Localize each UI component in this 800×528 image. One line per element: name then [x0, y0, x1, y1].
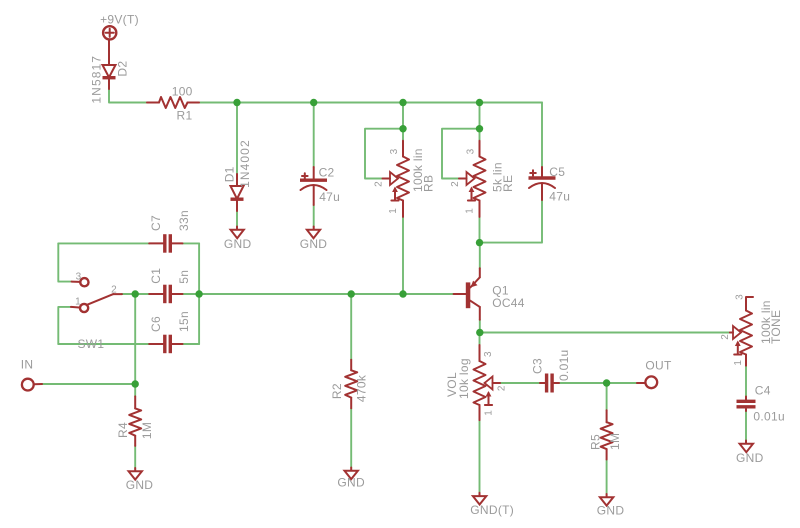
svg-text:1: 1 [75, 297, 81, 308]
svg-text:2: 2 [450, 181, 461, 187]
ground GND(T) (VOL) [470, 493, 514, 517]
svg-text:1: 1 [465, 208, 476, 214]
wire main V+ rail [199, 102, 542, 104]
svg-text:2: 2 [496, 385, 507, 391]
wire C3 to OUT [559, 382, 637, 384]
svg-text:SW1: SW1 [78, 337, 105, 351]
svg-text:D1: D1 [223, 166, 237, 182]
svg-text:1N5817: 1N5817 [90, 55, 104, 104]
svg-text:15n: 15n [177, 311, 191, 332]
transistor Q1 OC44 [454, 268, 525, 320]
resistor R2 470k [330, 360, 368, 409]
wire bracket top to throw 3 [58, 243, 71, 281]
svg-text:IN: IN [21, 358, 34, 372]
ground GND (R5) [597, 494, 625, 518]
wire VOL drop [479, 333, 481, 346]
svg-text:C7: C7 [149, 215, 163, 231]
potentiometer RB 100k lin [374, 141, 436, 217]
svg-text:OC44: OC44 [492, 296, 525, 310]
wire supply to rail corner [109, 89, 147, 103]
svg-text:2: 2 [720, 334, 731, 340]
resistor R1 [147, 84, 199, 122]
wire RE wiper bracket [442, 129, 480, 179]
wire rail corner to C5 [541, 103, 543, 168]
junction emitter node [476, 239, 483, 246]
wire RB drop [402, 103, 404, 141]
pin OUT [637, 359, 672, 389]
wire VOL bottom to ground [479, 420, 481, 493]
svg-text:R2: R2 [330, 383, 344, 399]
svg-text:R1: R1 [177, 108, 193, 122]
svg-text:470k: 470k [355, 374, 369, 402]
wire R5 drop [606, 383, 608, 410]
svg-text:47u: 47u [319, 190, 340, 204]
svg-text:D2: D2 [116, 61, 130, 77]
ground GND (C2) [300, 227, 328, 251]
junction rail-C2 [310, 99, 317, 106]
svg-text:C4: C4 [755, 384, 771, 398]
capacitor C4 0.01u [737, 384, 785, 424]
supply +9V(T) [100, 13, 139, 40]
svg-text:GND: GND [300, 237, 328, 251]
svg-text:33n: 33n [177, 210, 191, 231]
junction RB bracket [399, 125, 406, 132]
ground GND (C4) [736, 441, 764, 466]
wire R2 to ground [350, 408, 352, 467]
svg-text:R4: R4 [116, 422, 130, 438]
switch SW1 [71, 272, 122, 351]
wire R5 to ground [606, 460, 608, 495]
svg-text:GND: GND [597, 504, 625, 518]
capacitor C3 0.01u [531, 349, 572, 392]
wire C2 drop [313, 103, 315, 168]
svg-text:C3: C3 [531, 358, 545, 374]
svg-text:10k log: 10k log [457, 358, 471, 399]
wire C7 right green [183, 242, 200, 244]
svg-text:1: 1 [388, 208, 399, 214]
wire C4 to ground [745, 411, 747, 441]
junction rail-RE [476, 99, 483, 106]
junction RE bracket [476, 125, 483, 132]
wire base net [199, 293, 454, 295]
wire R4 to ground [134, 446, 136, 468]
wire bracket bottom to throw 1 [58, 307, 71, 344]
svg-text:RE: RE [501, 175, 515, 192]
svg-text:C1: C1 [149, 268, 163, 284]
wire D1 drop [236, 103, 238, 175]
svg-text:3: 3 [466, 148, 477, 154]
svg-text:GND: GND [126, 478, 154, 492]
junction switch-C1 node [132, 290, 139, 297]
wire emitter node to Q1 [479, 243, 481, 269]
wire C2 to ground [313, 205, 315, 227]
svg-text:R5: R5 [588, 434, 602, 450]
wire C6 row right [183, 343, 200, 345]
svg-text:3: 3 [735, 294, 746, 300]
diode D1 [223, 139, 253, 211]
wire right vertical bus [198, 243, 200, 344]
junction C1-right bus [195, 290, 202, 297]
svg-text:1M: 1M [608, 433, 622, 450]
junction base-R2 [348, 290, 355, 297]
capacitor C5 [529, 165, 571, 204]
wire RE bottom to emitter node [479, 217, 481, 243]
svg-text:GND(T): GND(T) [470, 503, 514, 517]
svg-text:2: 2 [111, 285, 117, 296]
svg-text:0.01u: 0.01u [753, 409, 785, 423]
svg-text:5n: 5n [177, 270, 191, 284]
junction rail-RB [399, 99, 406, 106]
capacitor C6 15n [149, 311, 191, 353]
svg-text:1M: 1M [140, 422, 154, 439]
wire D1 to ground [236, 211, 238, 227]
svg-text:1: 1 [484, 410, 495, 416]
capacitor C2 [300, 166, 340, 205]
wire C7 row [58, 242, 149, 244]
wire Q1 collector to node [479, 320, 481, 333]
svg-text:1N4002: 1N4002 [238, 139, 252, 188]
svg-text:GND: GND [224, 237, 252, 251]
svg-text:1: 1 [733, 360, 744, 366]
wire C5 bottom to emitter node [480, 200, 543, 243]
wire C6 row [58, 343, 149, 345]
wire R2 drop [350, 294, 352, 360]
svg-text:OUT: OUT [645, 359, 672, 373]
resistor R5 1M [588, 410, 621, 459]
junction collector node [476, 329, 483, 336]
potentiometer TONE 100k lin [720, 294, 783, 366]
wire RB wiper bracket [365, 129, 403, 179]
resistor R4 1M [116, 396, 154, 446]
pin IN [21, 358, 42, 391]
wire TONE bottom to C4 [745, 366, 747, 397]
wire C1 row left [135, 293, 149, 295]
svg-text:GND: GND [337, 476, 365, 490]
capacitor C1 5n [149, 268, 191, 303]
svg-text:C5: C5 [549, 165, 565, 179]
svg-text:100: 100 [172, 84, 193, 98]
junction rail-D1 [233, 99, 240, 106]
ground GND (R2) [337, 468, 365, 490]
svg-text:C6: C6 [149, 316, 163, 332]
ground GND (R4) [126, 468, 154, 492]
wire RE drop [479, 103, 481, 141]
wire collector row to TONE wiper [480, 332, 730, 334]
diode D2 [90, 39, 130, 103]
svg-text:2: 2 [374, 181, 385, 187]
svg-text:3: 3 [76, 272, 82, 283]
wire switch node down to IN row [134, 294, 136, 384]
wire VOL wiper to C3 [500, 382, 540, 384]
svg-text:TONE: TONE [769, 310, 783, 344]
wire IN row [42, 383, 135, 385]
svg-text:C2: C2 [319, 166, 335, 180]
wire C1 row right [183, 293, 200, 295]
svg-text:3: 3 [389, 148, 400, 154]
ground GND (D1) [224, 227, 252, 251]
svg-text:3: 3 [483, 351, 494, 357]
potentiometer VOL 10k log [445, 345, 507, 420]
capacitor C7 33n [149, 210, 191, 253]
wire RB bottom to base net [402, 217, 404, 294]
svg-text:47u: 47u [549, 190, 570, 204]
potentiometer RE 5k lin [450, 141, 515, 217]
junction IN-R4 [132, 380, 139, 387]
wire lever to C1 node [122, 293, 135, 295]
junction OUT-R5 [603, 379, 610, 386]
wire R4 link [134, 384, 136, 396]
svg-text:+9V(T): +9V(T) [100, 13, 139, 27]
svg-text:RB: RB [422, 175, 436, 192]
svg-text:0.01u: 0.01u [557, 349, 571, 381]
svg-text:GND: GND [736, 451, 764, 465]
junction base-RB [399, 290, 406, 297]
